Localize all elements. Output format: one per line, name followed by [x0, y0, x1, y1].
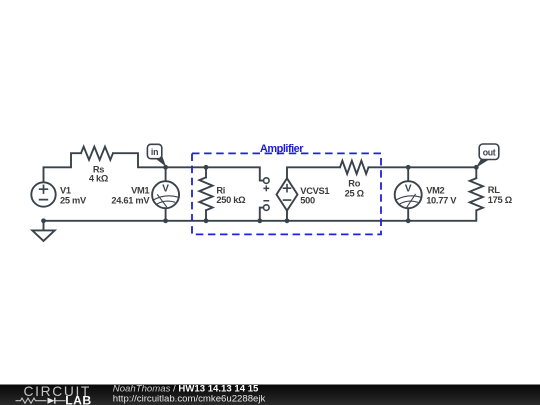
svg-text:4 kΩ: 4 kΩ — [89, 174, 109, 184]
svg-text:VM2: VM2 — [426, 186, 444, 196]
svg-text:VM1: VM1 — [131, 186, 149, 196]
svg-text:500: 500 — [300, 196, 315, 206]
svg-text:25 mV: 25 mV — [60, 195, 87, 205]
svg-text:V1: V1 — [60, 186, 71, 196]
svg-text:LAB: LAB — [65, 393, 92, 405]
svg-text:RL: RL — [488, 185, 500, 195]
svg-text:25 Ω: 25 Ω — [345, 188, 365, 198]
svg-text:24.61 mV: 24.61 mV — [111, 195, 150, 205]
svg-text:10.77 V: 10.77 V — [426, 195, 457, 205]
svg-text:175 Ω: 175 Ω — [488, 195, 513, 205]
svg-text:http://circuitlab.com/cmke6u22: http://circuitlab.com/cmke6u2288ejk — [113, 394, 266, 405]
svg-text:V: V — [162, 184, 169, 195]
svg-text:Ro: Ro — [348, 178, 360, 188]
svg-text:out: out — [483, 148, 496, 158]
svg-text:Amplifier: Amplifier — [260, 143, 304, 155]
svg-text:V: V — [405, 184, 412, 195]
svg-text:Ri: Ri — [216, 185, 225, 195]
svg-text:in: in — [151, 147, 158, 157]
svg-text:VCVS1: VCVS1 — [300, 186, 329, 196]
svg-text:250 kΩ: 250 kΩ — [216, 195, 246, 205]
